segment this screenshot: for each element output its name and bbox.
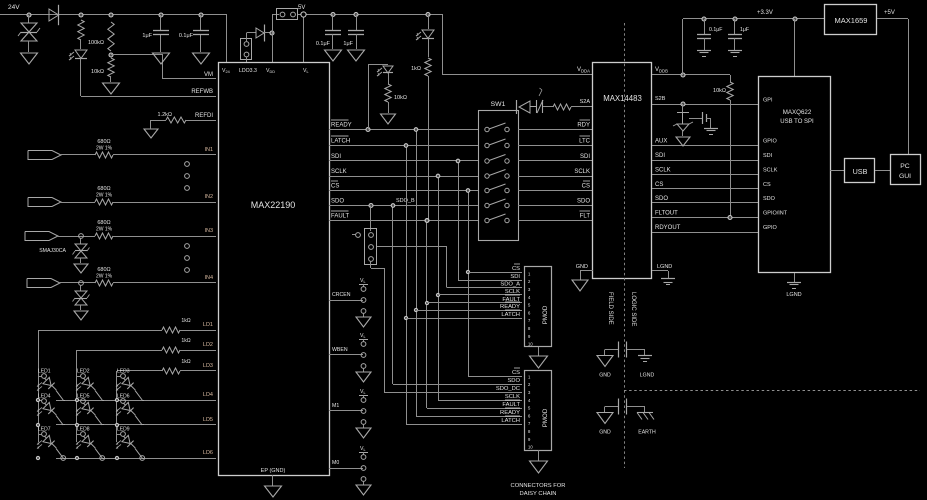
junction 5V/FAULT LED [426, 13, 430, 17]
svg-text:SDI: SDI [510, 274, 520, 280]
svg-text:SW1: SW1 [491, 101, 506, 108]
ground C6 [728, 50, 742, 52]
svg-text:1μF: 1μF [740, 27, 749, 33]
svg-text:FAULT: FAULT [331, 214, 350, 220]
svg-text:1kΩ: 1kΩ [411, 66, 421, 72]
svg-text:GPIO: GPIO [763, 139, 777, 145]
logic ground GNDB [661, 278, 675, 280]
wire LD5 [56, 424, 216, 426]
IC U1 MAX22190 body [219, 63, 330, 476]
ground jumper M1 [356, 428, 371, 438]
resistor 10k pullup [727, 82, 733, 100]
svg-text:SDI: SDI [655, 153, 665, 159]
ground of divider [103, 83, 120, 94]
svg-text:SDI: SDI [331, 154, 341, 160]
wire SDI drop to header [458, 161, 460, 280]
svg-text:FLTOUT: FLTOUT [655, 211, 678, 217]
junction SDO/jumper [369, 204, 373, 208]
LED LED4 pin [42, 399, 47, 404]
wire CS to header1 [468, 272, 522, 274]
wire IN4 to pin [113, 282, 216, 284]
wire READY drop to header [416, 130, 418, 417]
svg-text:SDO: SDO [331, 199, 344, 205]
junction S2B [681, 102, 685, 106]
test point IN3 [79, 234, 84, 239]
wire IN4 [60, 282, 95, 284]
wire LATCH to header1 [406, 318, 522, 320]
junction pullup/FLTOUT [728, 216, 732, 220]
switch FAULT [485, 218, 489, 222]
wire SDI to isolator [518, 160, 593, 162]
LED LED7 [41, 433, 59, 451]
junction C5 [702, 17, 706, 21]
LED LED1 [41, 375, 59, 393]
junction CS header1 [466, 270, 469, 273]
ground TVS IN3 [74, 264, 88, 273]
wire P3 ground [538, 450, 540, 461]
junction divider mid [109, 53, 113, 57]
LED LED6 pin [121, 399, 126, 404]
wire FAULT to header1 [427, 302, 522, 304]
svg-text:CS: CS [512, 370, 520, 376]
junction rail/C1 [159, 13, 163, 17]
junction 5V/C4 [354, 13, 358, 17]
svg-text:LDO3.3: LDO3.3 [239, 68, 257, 74]
svg-text:SDO: SDO [507, 378, 520, 384]
wire [682, 104, 684, 112]
LED LED1 pin [42, 374, 47, 379]
block PC GUI [891, 155, 921, 185]
svg-text:SCLK: SCLK [505, 289, 520, 295]
resistor 1k LD1 [162, 327, 180, 333]
ground TVS IN4 [74, 311, 88, 320]
svg-text:VDDB: VDDB [655, 67, 668, 74]
wire CS to header2 [468, 376, 522, 378]
svg-text:680Ω: 680Ω [97, 139, 110, 145]
input connector IN2 [28, 198, 61, 207]
wire cap [689, 118, 702, 120]
wire SDO to jumper [370, 206, 372, 232]
wire CS to isolator [518, 190, 593, 192]
svg-text:LATCH: LATCH [501, 418, 520, 424]
ground of D1 [21, 53, 38, 64]
wire CRCEN [329, 300, 363, 302]
resistor R3 (REFWB chain) [78, 20, 84, 40]
svg-text:REFWB: REFWB [191, 89, 213, 95]
junction LED matrix [115, 456, 118, 459]
ground jumper CRCEN [356, 317, 371, 327]
wire IN1 to pin [113, 154, 216, 156]
wire LATCH [329, 145, 478, 147]
wire JU3 mid to SDO_A [377, 246, 384, 248]
svg-text:LD4: LD4 [203, 392, 213, 398]
svg-text:LD5: LD5 [203, 417, 213, 423]
decor arrows [539, 90, 542, 96]
block USB connector [845, 159, 875, 183]
ground READY LED [381, 114, 396, 124]
svg-text:LED5: LED5 [77, 394, 90, 400]
connector pin [185, 256, 190, 261]
connector pin [185, 268, 190, 273]
svg-text:SCLK: SCLK [331, 169, 347, 175]
switch SCLK [485, 174, 489, 178]
ground EP [265, 486, 282, 497]
svg-text:10kΩ: 10kΩ [91, 69, 104, 75]
svg-text:1kΩ: 1kΩ [181, 318, 190, 324]
wire GNDA [580, 270, 593, 272]
svg-text:VM: VM [204, 72, 213, 78]
svg-text:680Ω: 680Ω [97, 267, 110, 273]
svg-text:GND: GND [599, 430, 611, 436]
wire diode to VDD net [264, 32, 272, 34]
jumper JU2 (5V ext) [277, 9, 298, 20]
svg-text:IN4: IN4 [204, 275, 213, 281]
connector pin [185, 186, 190, 191]
LED LED8 pin [81, 432, 86, 437]
svg-text:M1: M1 [332, 403, 339, 409]
resistor 680 IN3 [95, 233, 113, 239]
LED FAULT indicator [422, 30, 434, 38]
svg-text:2W 1%: 2W 1% [96, 274, 113, 280]
svg-text:LED9: LED9 [117, 427, 130, 433]
resistor AUX [553, 104, 571, 110]
svg-text:FLT: FLT [580, 214, 591, 220]
svg-text:CS: CS [763, 182, 771, 188]
diode D3 (LDO3.3 OR-ing) [256, 28, 264, 38]
wire FAULT drop to header [426, 221, 428, 409]
wire CS [329, 190, 478, 192]
resistor 680 IN1 [95, 152, 113, 158]
svg-text:1.2kΩ: 1.2kΩ [157, 112, 172, 118]
svg-text:EARTH: EARTH [638, 430, 656, 436]
junction LED matrix [75, 456, 78, 459]
wire to JU2 [272, 14, 279, 16]
junction FAULT header1 [425, 301, 428, 304]
wire down to REFWB [80, 59, 82, 97]
svg-text:LD6: LD6 [203, 450, 213, 456]
svg-text:CONNECTORS FOR: CONNECTORS FOR [511, 483, 566, 489]
svg-text:RDYOUT: RDYOUT [655, 225, 681, 231]
wire SDO (logic side) [652, 202, 758, 204]
wire +3.3V rail [683, 18, 825, 20]
ground jumper WBEN [356, 372, 371, 382]
diode D4 AUX row [516, 100, 518, 114]
junction LATCH header1 [404, 316, 407, 319]
wire SDI [329, 160, 478, 162]
ground micro [787, 282, 801, 284]
resistor 680 IN4 [95, 280, 113, 286]
wire SCLK to isolator [518, 176, 593, 178]
LED LED3 pin [121, 374, 126, 379]
wire RDYOUT (logic side) [652, 232, 758, 234]
resistor 100k [108, 22, 114, 51]
wire LATCH drop to header [406, 146, 408, 425]
wire SCLK (logic side) [652, 174, 758, 176]
wire P2 ground [538, 347, 540, 356]
svg-text:+3.3V: +3.3V [757, 10, 773, 16]
wire micro GND [794, 273, 796, 282]
svg-text:GND: GND [576, 264, 588, 270]
wire LD2 [77, 350, 162, 352]
svg-text:CS: CS [331, 184, 339, 190]
wire JU3 bottom to SDO_DC [370, 261, 372, 268]
wire VDDA [443, 74, 593, 76]
wire LD1 [38, 330, 162, 332]
svg-text:CS: CS [512, 266, 520, 272]
svg-text:LGND: LGND [786, 292, 801, 298]
wire LATCH to isolator [518, 145, 593, 147]
wire REFWB [81, 96, 216, 98]
wire M1 [329, 410, 363, 412]
resistor 1k LD3 [162, 368, 180, 374]
svg-text:1kΩ: 1kΩ [181, 359, 190, 365]
svg-text:SDO: SDO [577, 199, 590, 205]
LED LED5 [80, 400, 98, 418]
wire SDO_A to header1 [447, 287, 522, 289]
junction SCLK header1 [436, 293, 439, 296]
svg-text:READY: READY [500, 410, 520, 416]
resistor 10k [108, 58, 114, 77]
LED LED7 pin [42, 432, 47, 437]
jumper JU3 SDO select [365, 229, 377, 265]
LED LED8 [80, 433, 98, 451]
connector pin [185, 162, 190, 167]
connector pin [185, 244, 190, 249]
wire [150, 120, 152, 129]
svg-text:LD1: LD1 [203, 322, 213, 328]
wire SDO to isolator [518, 205, 593, 207]
ground C5 [697, 50, 711, 52]
svg-text:S2B: S2B [655, 96, 666, 102]
svg-text:M0: M0 [332, 460, 339, 466]
svg-text:1kΩ: 1kΩ [181, 338, 190, 344]
LED wetting indicator [75, 50, 87, 58]
earth ground Y-capacitor C9 across barrier [637, 412, 653, 414]
svg-text:CS: CS [655, 182, 663, 188]
junction VDD net [270, 31, 274, 35]
svg-text:USB TO SPI: USB TO SPI [780, 119, 814, 125]
capacitor C1 1uF [153, 30, 169, 32]
svg-text:LED1: LED1 [38, 369, 51, 375]
wire SDO_DC drop [384, 268, 386, 392]
isolation barrier (horizontal dashed) [624, 390, 920, 392]
ground jumper M0 [356, 485, 371, 495]
wire 5V rail [298, 14, 443, 16]
IC U3 MAXQ622 USB-to-SPI body [759, 77, 831, 273]
svg-text:SDI: SDI [580, 154, 590, 160]
wire SDO [329, 205, 478, 207]
wire VDDB up to 3.3V rail [682, 19, 684, 75]
switch SDI [485, 159, 489, 163]
ground P3 [530, 461, 548, 473]
svg-text:PC: PC [900, 163, 910, 170]
svg-text:DAISY CHAIN: DAISY CHAIN [520, 491, 557, 497]
wire IN3 to pin [113, 236, 216, 238]
wire SDO_DC to header2 [384, 392, 522, 394]
wire LD3 [117, 370, 162, 372]
junction LED matrix [75, 398, 78, 401]
svg-text:LGND: LGND [657, 264, 672, 270]
wire 24V rail [0, 14, 227, 16]
junction READY header1 [414, 308, 417, 311]
wire CS (logic side) [652, 188, 758, 190]
svg-text:MAX14483: MAX14483 [603, 94, 642, 103]
ground C7 [704, 128, 718, 130]
svg-text:10: 10 [528, 445, 533, 450]
LED LED9 pin [121, 432, 126, 437]
wire SDO to header [393, 384, 522, 386]
wire micro to USB [830, 170, 845, 172]
svg-text:SDO: SDO [763, 196, 776, 202]
svg-text:SDO_B: SDO_B [396, 198, 415, 204]
junction LED matrix [36, 423, 39, 426]
connector P3 daisy chain [525, 371, 552, 451]
resistor 680 IN2 [95, 199, 113, 205]
wire LATCH to header2 [406, 424, 522, 426]
junction rail/R chain [79, 13, 83, 17]
junction LED matrix [115, 398, 118, 401]
svg-text:2W 1%: 2W 1% [96, 146, 113, 152]
wire pullup [730, 75, 732, 82]
wire LED col1 [38, 330, 40, 442]
jumper JU1 (LDO3.3 to VDD) [241, 39, 252, 60]
junction FAULT LED chain [425, 219, 429, 223]
svg-text:10kΩ: 10kΩ [394, 95, 407, 101]
wire READY to isolator [518, 129, 593, 131]
svg-text:680Ω: 680Ω [97, 220, 110, 226]
junction C6 [733, 17, 737, 21]
wire CS drop to header [468, 191, 470, 377]
input connector IN4 [27, 279, 60, 288]
wire VM [111, 54, 163, 56]
connector P2 daisy chain [525, 267, 552, 347]
svg-text:IN3: IN3 [204, 228, 213, 234]
ground REFDI [144, 129, 158, 138]
ground (field) Y-capacitor C8 across barrier [597, 356, 613, 367]
svg-text:CRCEN: CRCEN [332, 292, 351, 298]
wire GNDB [652, 270, 668, 272]
svg-text:RDY: RDY [577, 123, 590, 129]
ground of C2 [193, 53, 210, 64]
capacitor C2 0.1uF [193, 30, 209, 32]
switch LATCH [485, 143, 489, 147]
resistor 1k LD2 [162, 347, 180, 353]
svg-text:LED7: LED7 [38, 427, 51, 433]
svg-text:GUI: GUI [899, 173, 911, 180]
wire USB to PC [875, 170, 890, 172]
wire jumper to LDO3.3 pin [246, 57, 248, 63]
svg-text:SDO: SDO [655, 196, 668, 202]
wire SCLK to header1 [438, 294, 522, 296]
svg-text:GPIO: GPIO [763, 225, 777, 231]
wire SDI to header [458, 280, 522, 282]
input connector IN3 [25, 232, 58, 241]
svg-text:SDO_A: SDO_A [500, 282, 520, 288]
diode D2 series [49, 9, 59, 21]
junction LED matrix [36, 456, 39, 459]
wire 5V to VDDA [442, 15, 444, 76]
svg-text:MAX22190: MAX22190 [251, 200, 296, 210]
svg-text:LED6: LED6 [117, 394, 130, 400]
svg-text:LATCH: LATCH [331, 139, 350, 145]
wire SCLK to header2 [438, 400, 522, 402]
wire FAULT to isolator [518, 220, 593, 222]
wire [80, 40, 82, 49]
wire READY LED tap [368, 65, 370, 130]
resistor 10k READY LED [385, 84, 391, 102]
junction LED matrix [75, 423, 78, 426]
wire LD6 [56, 458, 216, 460]
LED LED6 [120, 400, 138, 418]
wire LED col3 [116, 371, 118, 442]
junction LED matrix [36, 398, 39, 401]
wire READY to header1 [416, 310, 522, 312]
svg-text:REFDI: REFDI [195, 113, 213, 119]
junction VDDB/+3.3V [681, 73, 685, 77]
IC U2 MAX14483 body [593, 63, 652, 279]
connector pin row C [100, 456, 105, 461]
ground GNDA [572, 280, 588, 291]
ground of C1 [153, 53, 170, 64]
Y-capacitor C8 across barrier [605, 349, 618, 351]
isolation barrier (vertical dashed) [624, 23, 626, 468]
wire SCLK [329, 176, 478, 178]
wire AUX to pin [571, 106, 593, 108]
svg-text:0.1μF: 0.1μF [316, 41, 331, 47]
switch READY [485, 127, 489, 131]
junction LED matrix [115, 423, 118, 426]
svg-text:SMAJ30CA: SMAJ30CA [39, 248, 66, 254]
IC U4 MAX1659 (LDO) [825, 5, 877, 35]
svg-text:0.1μF: 0.1μF [709, 27, 722, 33]
wire S2B to GPI [652, 104, 758, 106]
wire FAULT [329, 220, 478, 222]
svg-text:+5V: +5V [884, 10, 895, 16]
wire to TVS D1 [28, 15, 30, 23]
resistor 1k FAULT LED [425, 58, 431, 76]
LED LED2 pin [81, 374, 86, 379]
svg-text:LED3: LED3 [117, 369, 130, 375]
TVS IN4 [75, 291, 87, 298]
svg-text:GPIO/INT: GPIO/INT [763, 211, 788, 217]
wire 3.3V to micro [794, 19, 796, 77]
junction READY LED [366, 128, 370, 132]
svg-text:READY: READY [331, 123, 352, 129]
svg-text:CS: CS [582, 184, 590, 190]
wire +5V [877, 18, 908, 20]
junction rail/divider [109, 13, 113, 17]
wire LED chain down to FAULT [428, 76, 430, 221]
svg-text:PMOD: PMOD [542, 408, 549, 427]
wire IN2 to pin [113, 202, 216, 204]
ground zener D6 [676, 137, 690, 146]
wire +5V down to PC [908, 19, 910, 155]
wire IN2 [61, 202, 95, 204]
wire VL stub [303, 15, 305, 63]
svg-text:LATCH: LATCH [501, 312, 520, 318]
wire SDO_A drop [446, 247, 448, 288]
svg-text:LED4: LED4 [38, 394, 51, 400]
jumper JU3 aux pin [356, 233, 361, 238]
switch block SW1 body [479, 111, 519, 241]
switch SDO [485, 203, 489, 207]
svg-text:1μF: 1μF [343, 41, 353, 47]
svg-text:WBEN: WBEN [332, 347, 348, 353]
input connector IN1 [28, 151, 61, 160]
svg-text:LD3: LD3 [203, 363, 213, 369]
wire SDO drop to header [392, 206, 394, 385]
connector pin [185, 174, 190, 179]
